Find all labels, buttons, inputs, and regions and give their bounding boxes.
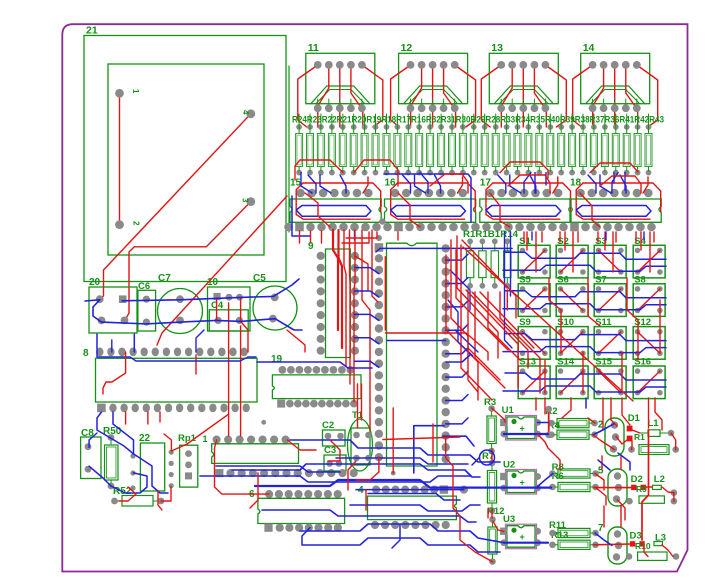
svg-text:S15: S15	[595, 357, 613, 368]
svg-text:4: 4	[358, 485, 364, 496]
svg-text:L2: L2	[654, 474, 665, 485]
svg-text:U1: U1	[502, 405, 515, 416]
svg-text:12: 12	[401, 42, 413, 54]
svg-text:S14: S14	[557, 357, 575, 368]
svg-text:4: 4	[241, 110, 250, 115]
svg-text:S10: S10	[557, 317, 574, 328]
svg-text:S8: S8	[634, 274, 646, 285]
svg-text:S9: S9	[519, 317, 531, 328]
svg-text:S5: S5	[519, 274, 531, 285]
svg-text:11: 11	[308, 42, 319, 54]
svg-text:D3: D3	[630, 531, 642, 542]
svg-text:C4: C4	[211, 300, 224, 311]
svg-text:14: 14	[583, 42, 595, 54]
svg-text:7: 7	[598, 523, 604, 534]
svg-text:C5: C5	[253, 273, 266, 284]
svg-text:+: +	[520, 478, 525, 488]
svg-text:S1: S1	[519, 236, 531, 247]
svg-text:C6: C6	[138, 281, 150, 292]
svg-text:S6: S6	[557, 274, 569, 285]
svg-text:1: 1	[203, 434, 208, 444]
svg-text:U3: U3	[503, 514, 515, 525]
svg-text:S16: S16	[634, 357, 651, 368]
svg-text:R10: R10	[635, 541, 651, 551]
svg-text:21: 21	[86, 25, 98, 37]
svg-text:S7: S7	[595, 274, 607, 285]
svg-text:9: 9	[308, 241, 314, 252]
svg-text:R9: R9	[636, 484, 647, 494]
svg-text:R1R1B1R14: R1R1B1R14	[463, 229, 518, 239]
svg-text:2: 2	[132, 221, 141, 226]
svg-text:1: 1	[131, 89, 140, 94]
svg-text:8: 8	[83, 348, 89, 359]
svg-text:R24R23R22R21R20R19R18R17R16R32: R24R23R22R21R20R19R18R17R16R32R31R30R29R…	[292, 115, 664, 125]
svg-text:19: 19	[271, 354, 283, 365]
svg-text:S2: S2	[557, 236, 569, 247]
svg-text:+: +	[520, 424, 525, 434]
svg-text:D1: D1	[628, 413, 641, 424]
svg-text:L1: L1	[648, 418, 660, 429]
svg-text:R12: R12	[487, 506, 504, 517]
svg-text:S11: S11	[595, 317, 612, 328]
svg-text:+: +	[520, 532, 525, 542]
svg-text:U2: U2	[503, 460, 515, 471]
svg-text:C7: C7	[158, 273, 171, 284]
svg-text:20: 20	[89, 277, 101, 288]
svg-text:5: 5	[598, 466, 604, 477]
svg-text:3: 3	[241, 198, 250, 203]
svg-text:13: 13	[491, 42, 503, 54]
